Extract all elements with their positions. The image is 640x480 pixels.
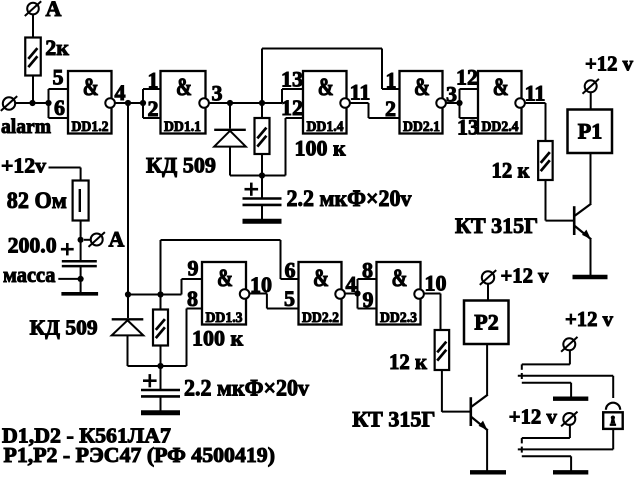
svg-text:1: 1 (148, 68, 159, 93)
svg-text:6: 6 (54, 95, 65, 120)
svg-text:&: & (414, 74, 430, 101)
svg-text:+12 v: +12 v (509, 405, 557, 429)
svg-text:11: 11 (350, 79, 371, 104)
svg-text:100 к: 100 к (192, 325, 244, 350)
svg-text:100 к: 100 к (295, 136, 347, 161)
svg-text:2.2 мкФ×20v: 2.2 мкФ×20v (287, 186, 412, 211)
svg-text:DD2.3: DD2.3 (380, 310, 417, 326)
svg-text:+12 v: +12 v (501, 264, 549, 288)
svg-text:масса: масса (3, 262, 56, 287)
svg-text:DD2.4: DD2.4 (482, 119, 519, 135)
svg-text:10: 10 (250, 272, 272, 297)
svg-text:5: 5 (284, 286, 295, 311)
svg-text:&: & (392, 265, 408, 292)
svg-text:&: & (176, 74, 192, 101)
svg-text:10: 10 (425, 270, 447, 295)
svg-text:11: 11 (525, 81, 546, 106)
svg-text:1: 1 (386, 68, 397, 93)
svg-text:DD1.4: DD1.4 (307, 119, 344, 135)
svg-text:6: 6 (285, 258, 296, 283)
svg-text:+12 v: +12 v (565, 307, 613, 331)
svg-text:2: 2 (148, 96, 159, 121)
svg-text:9: 9 (188, 256, 199, 281)
svg-text:12: 12 (281, 95, 303, 120)
svg-text:2к: 2к (45, 35, 69, 60)
svg-text:12 к: 12 к (389, 349, 427, 374)
svg-text:13: 13 (457, 115, 479, 140)
svg-text:82 Ом: 82 Ом (7, 188, 67, 213)
svg-text:КТ 315Г: КТ 315Г (352, 407, 435, 432)
svg-text:2: 2 (385, 96, 396, 121)
svg-text:P2: P2 (474, 310, 498, 335)
svg-text:КТ 315Г: КТ 315Г (455, 213, 538, 238)
svg-text:+12v: +12v (1, 154, 47, 178)
svg-text:DD2.2: DD2.2 (302, 310, 339, 326)
svg-text:DD2.1: DD2.1 (403, 119, 440, 135)
svg-text:12: 12 (456, 65, 478, 90)
svg-text:КД 509: КД 509 (30, 316, 98, 340)
svg-text:КД 509: КД 509 (146, 153, 216, 178)
svg-text:P1,P2 - РЭС47 (РФ 4500419): P1,P2 - РЭС47 (РФ 4500419) (4, 443, 276, 467)
svg-text:&: & (493, 74, 509, 101)
svg-text:4: 4 (115, 80, 126, 105)
svg-text:DD1.2: DD1.2 (72, 119, 109, 135)
svg-text:3: 3 (212, 81, 223, 106)
svg-text:13: 13 (281, 67, 303, 92)
svg-text:5: 5 (53, 65, 64, 90)
svg-text:A: A (46, 0, 62, 21)
svg-text:+12 v: +12 v (585, 52, 633, 76)
svg-text:&: & (83, 74, 99, 101)
svg-text:200.0: 200.0 (8, 233, 57, 258)
svg-text:&: & (318, 74, 334, 101)
svg-text:8: 8 (362, 258, 373, 283)
svg-text:&: & (217, 265, 233, 292)
svg-text:&: & (313, 265, 329, 292)
svg-text:8: 8 (187, 286, 198, 311)
svg-text:9: 9 (363, 287, 374, 312)
svg-text:DD1.3: DD1.3 (206, 310, 243, 326)
svg-text:P1: P1 (578, 119, 602, 144)
svg-text:DD1.1: DD1.1 (164, 119, 201, 135)
svg-text:A: A (109, 227, 125, 252)
svg-text:alarm: alarm (1, 114, 51, 138)
svg-text:12 к: 12 к (492, 158, 530, 183)
svg-text:2.2 мкФ×20v: 2.2 мкФ×20v (184, 375, 309, 400)
